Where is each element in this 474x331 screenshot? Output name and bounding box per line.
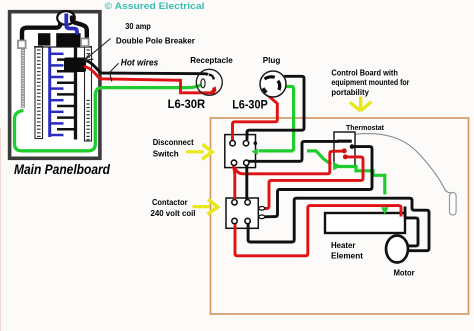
left breaker strip: [35, 47, 43, 139]
svg-text:L6-30P: L6-30P: [232, 98, 268, 112]
svg-text:L6-30R: L6-30R: [168, 97, 206, 111]
ground wire in panel to receptacle: [15, 84, 203, 151]
right breaker strip: [85, 47, 92, 142]
ground run to heater: [339, 167, 385, 195]
svg-text:Element: Element: [331, 251, 363, 261]
svg-text:Plug: Plug: [263, 55, 281, 65]
capillary bulb: [450, 193, 457, 216]
svg-text:Receptacle: Receptacle: [190, 55, 233, 65]
thermostat red terminals: [342, 148, 347, 153]
panel enclosure: [10, 12, 100, 159]
contactor coil terminals: [259, 207, 265, 219]
plug blade top: [265, 77, 275, 79]
black from plug to switch: [247, 76, 304, 140]
junction dot at switch box edge: [254, 141, 258, 145]
svg-text:© Assured Electrical: © Assured Electrical: [105, 1, 205, 12]
main breaker block right: [56, 33, 80, 46]
black thermostat to node: [263, 147, 372, 217]
plug blade lower-left: [263, 88, 266, 92]
red switch to contactor: [234, 164, 235, 201]
thermostat capillary line: [356, 134, 452, 193]
green arrowhead at switch: [251, 148, 257, 155]
annotation arrow: breaker label to breaker CB1: [85, 39, 111, 61]
motor: [386, 236, 408, 263]
yellow arrow to disconnect switch: [186, 144, 212, 159]
30A double pole breaker blob: [64, 58, 86, 73]
lug left: [18, 41, 26, 49]
svg-text:Double Pole Breaker: Double Pole Breaker: [116, 35, 196, 45]
red to thermostat: [235, 151, 344, 174]
svg-text:Switch: Switch: [153, 149, 179, 159]
black heater node to motor: [405, 207, 418, 246]
service entry ring: [57, 11, 75, 25]
disconnect switch terminals: [230, 141, 249, 166]
contactor box: [226, 198, 258, 228]
service cable left: [22, 16, 60, 46]
yellow arrow to contactor: [193, 199, 218, 214]
left edge scan artifact: [0, 128, 1, 331]
contactor terminals: [232, 200, 251, 224]
red from plug to switch: [233, 92, 278, 141]
thermostat box: [334, 132, 355, 167]
svg-text:Thermostat: Thermostat: [346, 123, 384, 132]
svg-text:30 amp: 30 amp: [125, 21, 151, 31]
thermostat black terminal: [350, 144, 355, 149]
heater element: [325, 213, 405, 233]
svg-text:Hot wires: Hot wires: [121, 57, 159, 67]
inner panel top rail: [34, 46, 92, 48]
annotation arrow: hot wires label to wires: [110, 63, 119, 81]
svg-text:equipment mounted for: equipment mounted for: [331, 77, 410, 87]
receptacle ground slot: [201, 79, 205, 88]
svg-text:240 volt coil: 240 volt coil: [151, 208, 196, 218]
main breaker block left: [38, 33, 50, 45]
green arrowhead at heater: [381, 207, 389, 214]
svg-text:Contactor: Contactor: [152, 197, 188, 207]
black switch to thermostat: [248, 141, 339, 161]
neutral bar ticks (left column): [21, 50, 24, 108]
svg-text:Heater: Heater: [331, 240, 356, 250]
hot red from breaker to receptacle: [84, 67, 214, 93]
red thermostat to coil: [263, 157, 363, 209]
ground branch to disconnect switch: [259, 149, 294, 152]
plug blade right: [278, 81, 280, 90]
black switch to contactor: [245, 164, 248, 201]
svg-text:Disconnect: Disconnect: [153, 137, 194, 147]
ladder: blue bus: [50, 47, 64, 137]
disconnect switch box: [225, 135, 256, 168]
hot black from breaker to receptacle: [86, 61, 209, 75]
svg-text:Main Panelboard: Main Panelboard: [14, 161, 110, 177]
svg-text:Control Board with: Control Board with: [331, 67, 398, 77]
svg-text:Motor: Motor: [394, 267, 416, 277]
green arrowhead mid: [333, 162, 341, 171]
lug right: [81, 39, 89, 47]
ground wire from plug down: [282, 87, 294, 151]
ladder: black bus: [57, 47, 76, 140]
service cable right: [72, 16, 87, 39]
red pin receptacle: [211, 86, 217, 92]
receptacle hot pin slot: [209, 75, 214, 80]
yellow arrow to control board: [350, 97, 372, 111]
red contactor to heater: [235, 206, 401, 256]
svg-text:portability: portability: [331, 87, 369, 97]
neutral (blue) service wire: [66, 14, 77, 35]
black node to motor circuit: [248, 198, 429, 251]
thermostat contact bar: [337, 140, 352, 143]
ground run to thermostat area: [307, 151, 332, 165]
